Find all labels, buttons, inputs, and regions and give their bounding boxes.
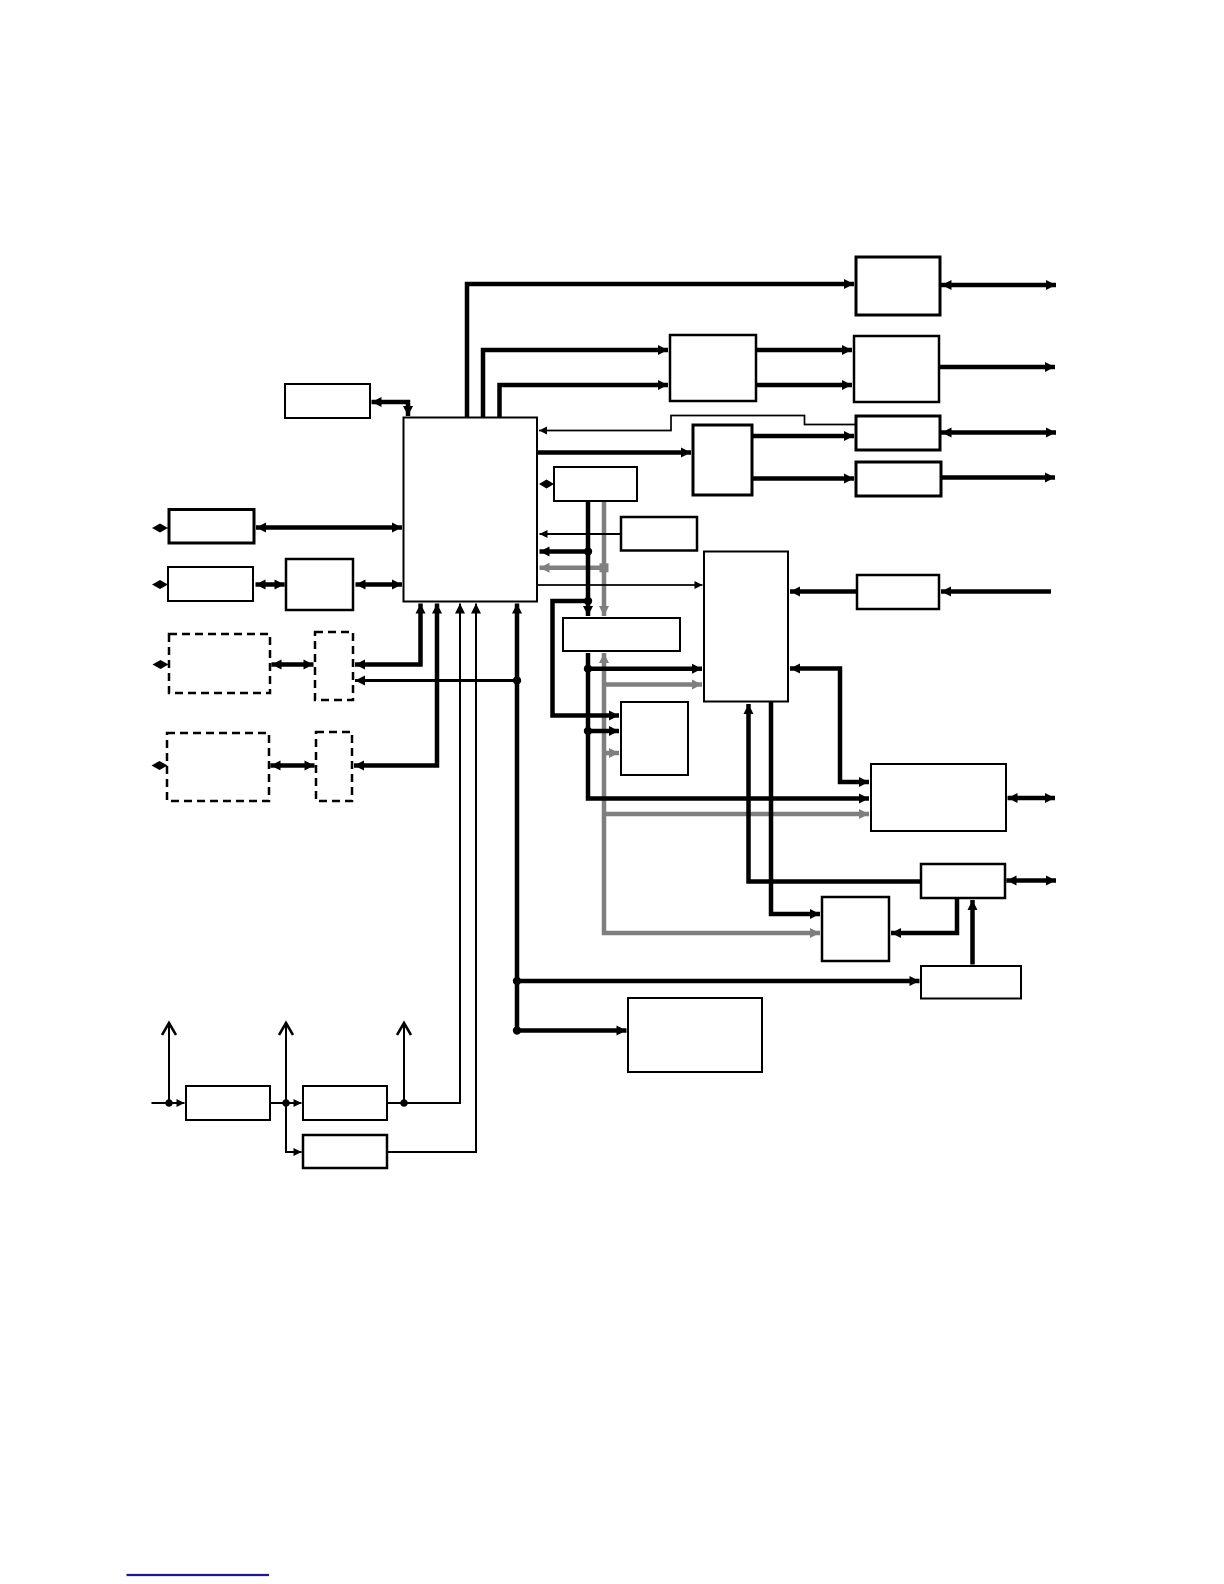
- wire: from block R6 bottom down left into block SQ right edge: [891, 898, 957, 933]
- junction: [584, 547, 592, 555]
- wire: block R5 left into block TALL right edge: [790, 589, 857, 594]
- junction: [282, 1099, 290, 1107]
- junction: [584, 597, 592, 605]
- block R1 (top right): [856, 257, 940, 315]
- block BIG1: [871, 764, 1006, 831]
- wire: MCU top to block M1 upper input: [483, 350, 668, 418]
- wire: up arrow at block B1 input: [168, 1023, 170, 1103]
- wire: up arrow right of block B2: [403, 1023, 405, 1103]
- wire: from block R7 top up into block R6 bottom: [970, 900, 975, 965]
- wire: bidirectional block R6 to page right: [1007, 878, 1057, 883]
- wire: block REG elbow down into MCU top: [372, 402, 409, 416]
- gray wire: long branch right into block BIG1 left edge: [604, 812, 869, 817]
- junction: [165, 1099, 173, 1107]
- wire: thin from block B2 right up into MCU bottom: [388, 604, 460, 1104]
- wire: block M2 to block R4: [752, 476, 854, 481]
- wire: bidirectional block L2 to block L3: [256, 582, 285, 587]
- wire: MCU top to block M1 lower input: [500, 385, 669, 418]
- wire: MCU top run to block R1: [467, 284, 854, 418]
- wire: long branch right into block R7: [517, 979, 920, 984]
- diamond connector at dashed D2: [152, 761, 168, 770]
- wire: thin from block B3 right up into MCU bottom: [388, 604, 476, 1153]
- diamond connector at block L2: [152, 580, 168, 589]
- block SQ: [822, 897, 889, 961]
- gray wire: branch right into block TALL left edge: [604, 682, 702, 687]
- junction: [584, 727, 592, 735]
- wire: bidirectional block R3 to page right: [942, 430, 1057, 435]
- block L1: [169, 510, 254, 544]
- wire: block B1 to block B2: [271, 1102, 302, 1104]
- junction: [400, 1099, 408, 1107]
- wire: bidirectional dashed D1 to D1s: [272, 662, 314, 667]
- blue footer line: [127, 1574, 270, 1576]
- block L2: [168, 567, 253, 601]
- wire: thin MCU right to block TALL left: [538, 584, 703, 586]
- block TALL: [704, 552, 788, 702]
- wire: branch right into block R2b left edge: [588, 729, 619, 734]
- wire: black vertical from block Q bottom into block R1b top: [586, 501, 591, 616]
- wire: input from right into block R5: [941, 589, 1051, 594]
- block R5: [857, 575, 939, 609]
- block B2: [303, 1086, 387, 1120]
- wire: thin feedback from MCU right to block R3: [539, 416, 856, 431]
- wire: block M1 to block R2 upper: [756, 348, 852, 353]
- wire: MCU right to block M2 input: [537, 450, 691, 455]
- wire: block TALL right elbow down into block BIG1 left: [790, 669, 869, 783]
- wire: branch left-down into block R2b left edge: [553, 601, 620, 716]
- block R1b (below MCU right): [563, 618, 680, 651]
- wire: block R4 output to right: [941, 475, 1055, 480]
- wire: bidirectional block R1 to page right: [942, 283, 1057, 288]
- wire: dashed D2s right elbow up into MCU bottom: [354, 604, 437, 766]
- wire: bidirectional dashed D2 to D2s: [271, 763, 315, 768]
- gray wire: branch left into MCU right edge: [540, 566, 605, 571]
- wire: dashed D1s right elbow up into MCU bottom: [355, 604, 421, 665]
- wire: thin from block X left into MCU right: [540, 533, 622, 535]
- diamond connector at dashed D1: [153, 660, 169, 669]
- block B1 (bottom left): [186, 1086, 270, 1120]
- block REG (top left): [285, 384, 370, 418]
- wire: bidirectional block BIG1 to page right: [1008, 796, 1056, 801]
- block D1s (dashed): [315, 632, 353, 700]
- wire: block R2 output to right: [939, 365, 1055, 370]
- wire: block M1 to block R2 lower: [756, 383, 852, 388]
- wire: thick vertical from MCU bottom elbow right into block BOT1: [517, 604, 627, 1031]
- wire: branch left into MCU right edge: [540, 549, 589, 554]
- block BOT1: [628, 998, 762, 1072]
- junction: [513, 977, 521, 985]
- block D2 (dashed): [167, 733, 269, 801]
- block R7: [921, 966, 1021, 999]
- block D2s (dashed): [316, 732, 352, 801]
- wire: block M2 to block R3: [752, 434, 854, 439]
- diamond connector at block L1: [152, 524, 168, 533]
- junction: [584, 665, 592, 673]
- block M2: [693, 425, 752, 495]
- block L3: [286, 559, 353, 610]
- gray wire: branch right into block R2b left edge: [604, 751, 619, 756]
- wire: branch right into block TALL left edge: [588, 666, 702, 671]
- gray wire: from block Q bottom down into block R1b top: [602, 501, 607, 616]
- block R2b: [621, 702, 688, 775]
- gray wire: from block R1b bottom down then right into block SQ left edge: [604, 653, 820, 933]
- block MCU (central): [404, 418, 538, 602]
- block D1 (dashed): [169, 634, 270, 693]
- block B3: [303, 1135, 387, 1168]
- block R4: [856, 462, 941, 496]
- wire: bidirectional block L3 to MCU left: [356, 582, 403, 587]
- block M1: [670, 335, 756, 401]
- wire: from block R6 left edge up into block TALL bottom: [749, 704, 922, 882]
- block R2: [854, 336, 939, 402]
- wire: bidirectional block L1 to MCU left: [256, 525, 402, 530]
- diamond connector between MCU and block Q: [539, 480, 554, 489]
- block Q (right of MCU): [554, 467, 637, 501]
- wire: input line into block B1: [152, 1102, 185, 1104]
- block R3: [856, 416, 940, 450]
- wire: branch down into block B3: [286, 1103, 302, 1152]
- wire: medium branch left into dashed D1s: [355, 679, 517, 682]
- wire: black vertical below R1b elbow right into block BIG1: [588, 653, 869, 799]
- junction: [513, 676, 521, 684]
- gray junction: [600, 563, 609, 572]
- junction: [513, 1026, 521, 1034]
- block R6: [921, 864, 1005, 898]
- wire: from block TALL bottom down right into block SQ left edge: [771, 703, 820, 915]
- block X (small box right of MCU): [621, 517, 697, 551]
- wire: up arrow between B1 and B2: [285, 1023, 287, 1103]
